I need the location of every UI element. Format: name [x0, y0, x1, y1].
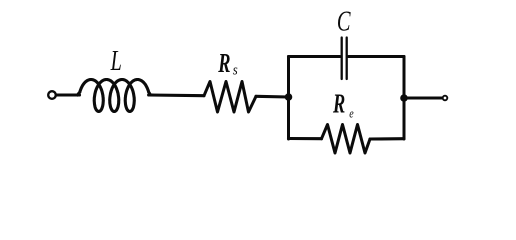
- wire to right terminal: [404, 96, 442, 99]
- inductor L: [78, 80, 153, 112]
- wire bottom-left: [289, 137, 322, 140]
- svg-text:e: e: [349, 108, 353, 121]
- label Re: [332, 88, 345, 118]
- resistor Rs: [204, 82, 256, 113]
- wire left vertical of parallel section: [287, 57, 290, 140]
- left terminal: [48, 91, 56, 99]
- svg-text:L: L: [110, 46, 122, 77]
- label Rs: [218, 47, 231, 77]
- wire: [256, 95, 289, 99]
- node (right junction): [400, 94, 408, 102]
- svg-text:R: R: [218, 47, 231, 77]
- svg-text:R: R: [332, 88, 345, 118]
- wire top-right: [349, 55, 404, 58]
- wire right vertical of parallel section: [403, 57, 406, 140]
- right terminal: [443, 96, 448, 101]
- wire bottom-right: [370, 137, 404, 140]
- svg-text:s: s: [233, 63, 238, 79]
- svg-text:C: C: [337, 7, 351, 38]
- resistor Re: [322, 125, 371, 154]
- wire: [149, 93, 204, 97]
- label C: [337, 7, 351, 38]
- label L: [110, 46, 122, 77]
- node (left junction): [285, 93, 293, 101]
- capacitor C: [341, 38, 343, 80]
- wire: [56, 93, 79, 96]
- wire top-left: [289, 55, 340, 58]
